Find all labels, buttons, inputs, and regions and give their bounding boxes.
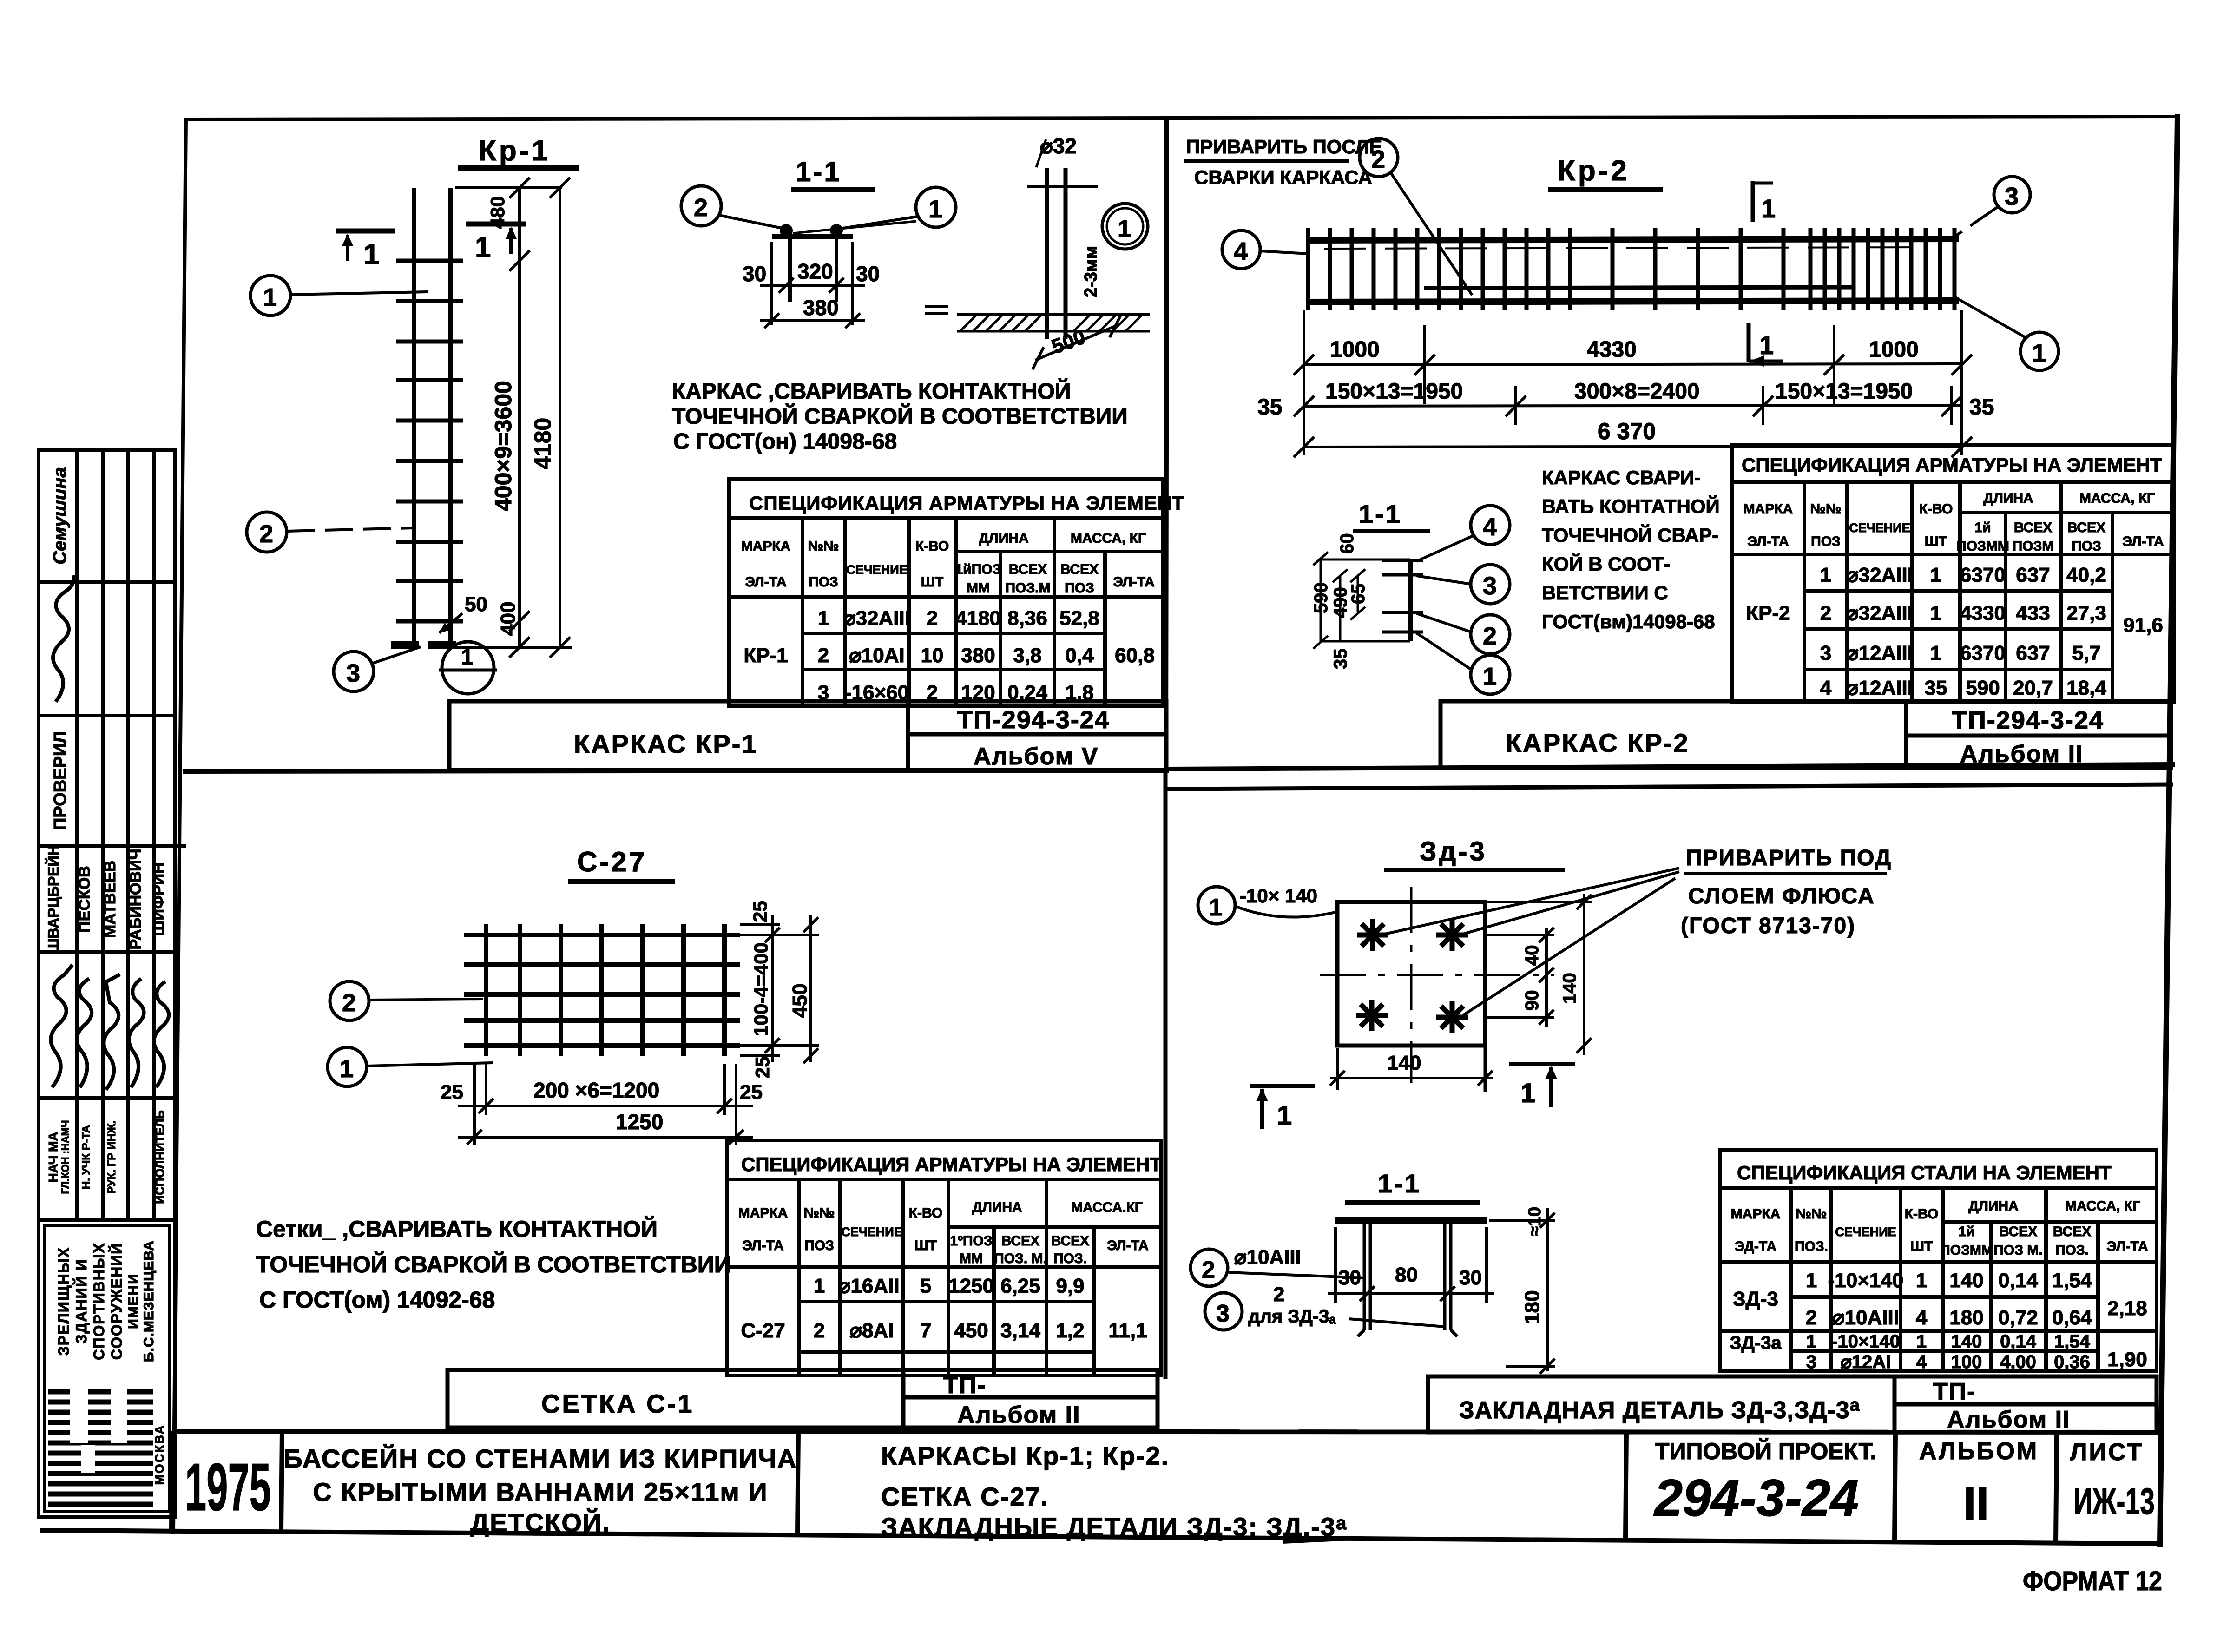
svg-text:ДЛИНА: ДЛИНА [1983,491,2033,506]
svg-text:ВЕТСТВИИ С: ВЕТСТВИИ С [1542,582,1668,604]
dim 590 [1313,552,1410,649]
callout circle 1 [916,187,956,227]
svg-text:4: 4 [1234,237,1248,265]
svg-text:№№: №№ [808,539,839,554]
project name [284,1444,797,1537]
svg-text:КАРКАСЫ Кр-1; Кр-2.: КАРКАСЫ Кр-1; Кр-2. [881,1441,1169,1470]
svg-text:1: 1 [1277,1100,1292,1131]
svg-text:2: 2 [927,607,938,630]
SECTION:BOTTOM [39,450,186,1517]
svg-text:МАССА, КГ: МАССА, КГ [2065,1198,2140,1214]
svg-text:4330: 4330 [1587,337,1637,362]
svg-text:ЭЛ-ТА: ЭЛ-ТА [742,1238,783,1253]
svg-text:ВСЕХ: ВСЕХ [1001,1233,1039,1249]
svg-text:№№: №№ [804,1205,835,1221]
callout circle 1 [250,276,290,316]
svg-text:Кр-2: Кр-2 [1558,155,1630,187]
callout circles 4 3 2 1 [1471,506,1510,545]
svg-text:ЗАКЛАДНАЯ ДЕТАЛЬ ЗД-3,ЗД-3а: ЗАКЛАДНАЯ ДЕТАЛЬ ЗД-3,ЗД-3а [1459,1395,1860,1424]
svg-text:1250: 1250 [616,1110,663,1134]
svg-text:1,2: 1,2 [1056,1319,1084,1342]
svg-text:⌀32АIII: ⌀32АIII [1846,602,1913,625]
svg-text:35: 35 [1330,649,1351,670]
svg-text:⌀12АIII: ⌀12АIII [1846,642,1913,665]
svg-text:-10×140: -10×140 [1831,1331,1900,1352]
svg-text:ПОЗ.: ПОЗ. [1053,1251,1087,1266]
svg-text:⌀32АIII: ⌀32АIII [843,607,910,630]
callout circle 3 [334,652,374,691]
svg-text:⌀32АIII: ⌀32АIII [1846,564,1913,586]
svg-text:0,14: 0,14 [2000,1331,2037,1352]
svg-text:1й: 1й [1974,520,1991,535]
svg-text:10: 10 [921,644,944,667]
svg-text:СВАРКИ КАРКАСА: СВАРКИ КАРКАСА [1194,166,1372,188]
svg-text:400×9=3600: 400×9=3600 [490,381,516,511]
svg-text:К-ВО: К-ВО [1905,1206,1939,1222]
svg-text:27,3: 27,3 [2066,602,2106,625]
svg-text:ВСЕХ: ВСЕХ [1999,1224,2037,1239]
page border left [173,119,186,1532]
page border right [2160,117,2178,1544]
svg-text:25: 25 [751,1056,773,1078]
svg-text:СЕЧЕНИЕ: СЕЧЕНИЕ [1849,521,1910,535]
callout circle 2 phi10AIII [1191,1249,1228,1286]
mesh C-27 horizontal bars poz.1 [464,935,740,1046]
svg-text:3,8: 3,8 [1013,644,1041,667]
weld star 3 [1356,1000,1388,1031]
svg-text:МАРКА: МАРКА [1731,1206,1781,1222]
svg-text:140: 140 [1387,1052,1421,1074]
callout circle 1 [2020,332,2059,370]
title bar ЗАКЛАДНАЯ ДЕТАЛЬ [1428,1376,2157,1432]
svg-text:1: 1 [1820,564,1831,586]
svg-text:ВСЕХ: ВСЕХ [1051,1233,1089,1249]
svg-text:ДЛИНА: ДЛИНА [972,1200,1022,1215]
dim 180 right [1489,1208,1555,1374]
svg-text:1: 1 [1930,602,1941,625]
svg-text:100: 100 [1951,1352,1982,1372]
svg-text:ПОЗМ: ПОЗМ [2013,539,2054,554]
svg-text:ВСЕХ: ВСЕХ [2053,1224,2091,1239]
svg-text:35: 35 [1969,395,1994,420]
svg-text:1-1: 1-1 [1359,499,1402,528]
svg-text:ВСЕХ: ВСЕХ [2014,520,2052,535]
svg-text:С ГОСТ(он) 14098-68: С ГОСТ(он) 14098-68 [673,429,897,454]
svg-text:С-27: С-27 [741,1319,785,1342]
weld star 2 [1436,919,1468,951]
bottom dim 25 200x6=1200 25 [458,1064,753,1145]
svg-text:ЗД-3а: ЗД-3а [1730,1333,1782,1353]
svg-text:0,72: 0,72 [1998,1306,2038,1329]
dim 65 [1350,569,1365,620]
svg-text:1: 1 [1806,1269,1817,1292]
svg-text:⌀12АI: ⌀12АI [1841,1352,1891,1372]
svg-text:Н. УЧК Р-ТА: Н. УЧК Р-ТА [80,1125,92,1189]
svg-text:4: 4 [1820,677,1832,699]
svg-text:ИСПОЛНИТЕЛЬ: ИСПОЛНИТЕЛЬ [153,1110,167,1204]
section mark 1 right [1509,1062,1575,1066]
svg-text:3: 3 [346,659,360,687]
svg-text:637: 637 [2016,642,2050,665]
anchor leg right poz.2 [1443,1224,1447,1330]
svg-text:2: 2 [1371,145,1385,173]
dim 500 diagonal [1035,325,1117,360]
svg-text:Альбом II: Альбом II [957,1402,1081,1428]
svg-text:НАЧ МА: НАЧ МА [46,1132,60,1182]
svg-text:ДЛИНА: ДЛИНА [1968,1198,2018,1214]
section cut mark 1 top [1751,181,1755,222]
plate ЗД-3 poz.1 [1337,902,1485,1046]
svg-text:1000: 1000 [1869,337,1919,362]
title bar КАРКАС КР-1 [449,701,1166,770]
svg-text:2: 2 [1273,1283,1284,1306]
svg-text:2: 2 [818,644,829,667]
svg-text:СЕЧЕНИЕ: СЕЧЕНИЕ [841,1225,902,1239]
svg-text:ШИФРИН: ШИФРИН [150,862,168,936]
section mark 1 left [336,229,395,234]
svg-text:590: 590 [1966,677,2000,699]
svg-text:18,4: 18,4 [2066,677,2106,699]
svg-text:3: 3 [1806,1352,1816,1372]
svg-text:2,18: 2,18 [2107,1297,2147,1320]
svg-text:1: 1 [363,238,379,270]
svg-text:СЛОЕМ ФЛЮСА: СЛОЕМ ФЛЮСА [1688,884,1875,908]
svg-text:65: 65 [1348,584,1368,605]
svg-text:ШТ: ШТ [914,1238,937,1253]
svg-text:294-3-24: 294-3-24 [1653,1469,1859,1527]
svg-text:100-4=400: 100-4=400 [750,942,772,1036]
svg-text:140: 140 [1559,973,1580,1004]
svg-text:ПРИВАРИТЬ ПОД: ПРИВАРИТЬ ПОД [1686,846,1892,870]
svg-text:590: 590 [1311,582,1331,613]
svg-text:⌀32: ⌀32 [1040,134,1077,158]
rebar cage Кр-1 vertical bar left (poz.1) [412,188,416,647]
svg-text:МАРКА: МАРКА [741,539,791,554]
svg-text:60,8: 60,8 [1115,644,1155,667]
detail top bar [772,234,853,239]
svg-text:30: 30 [743,262,766,286]
svg-text:ТОЧЕЧНОЙ СВАРКОЙ В СООТВЕТСТ: ТОЧЕЧНОЙ СВАРКОЙ В СООТВЕТСТВИИ [256,1251,731,1277]
section mark 1 right [466,222,526,227]
SECTION:DETAIL11 [449,479,1184,770]
svg-text:ШТ: ШТ [1925,534,1947,549]
svg-text:ПОЗ. М.: ПОЗ. М. [994,1251,1047,1266]
svg-text:ДЛИНА: ДЛИНА [979,531,1028,546]
svg-text:ЗАКЛАДНЫЕ ДЕТАЛИ ЗД-3; ЗД,-3а: ЗАКЛАДНЫЕ ДЕТАЛИ ЗД-3; ЗД,-3а [881,1512,1347,1541]
svg-text:Альбом II: Альбом II [1960,741,2084,768]
svg-text:ПОЗ.М: ПОЗ.М [1005,580,1050,596]
svg-text:140: 140 [1951,1331,1982,1352]
svg-text:ГОСТ(вм)14098-68: ГОСТ(вм)14098-68 [1542,611,1715,632]
svg-text:КАРКАС КР-1: КАРКАС КР-1 [574,729,758,758]
svg-text:ПОЗ: ПОЗ [809,574,838,590]
svg-text:С-27: С-27 [577,846,647,877]
dim 490 [1333,569,1348,641]
svg-text:№№: №№ [1810,501,1842,517]
plate right edge extension [1484,1046,1487,1092]
svg-text:⌀8АI: ⌀8АI [850,1319,894,1342]
callout circle 2 [330,981,369,1020]
beam Кр-2 top chord poz.1 [1306,239,1959,240]
sheet contents [881,1441,1347,1541]
dim 30 80 30 [1328,1227,1494,1303]
svg-text:МАРКА: МАРКА [1743,501,1793,517]
svg-text:450: 450 [789,984,811,1018]
svg-text:СЕЧЕНИЕ: СЕЧЕНИЕ [1835,1225,1896,1239]
svg-text:ЭЛ-ТА: ЭЛ-ТА [1113,574,1154,590]
svg-text:СПЕЦИФИКАЦИЯ АРМАТУРЫ НА ЭЛЕМЕ: СПЕЦИФИКАЦИЯ АРМАТУРЫ НА ЭЛЕМЕНТ [749,492,1184,514]
svg-text:5,7: 5,7 [2072,642,2100,665]
svg-text:СПЕЦИФИКАЦИЯ АРМАТУРЫ НА ЭЛЕМЕ: СПЕЦИФИКАЦИЯ АРМАТУРЫ НА ЭЛЕМЕНТ [741,1153,1162,1175]
svg-text:ЗДАНИЙ И: ЗДАНИЙ И [73,1259,90,1344]
svg-text:КР-2: КР-2 [1746,602,1790,625]
svg-text:1ºПОЗ: 1ºПОЗ [950,1233,992,1249]
svg-text:ШТ: ШТ [1910,1239,1933,1254]
svg-text:СПЕЦИФИКАЦИЯ СТАЛИ НА ЭЛЕМЕНТ: СПЕЦИФИКАЦИЯ СТАЛИ НА ЭЛЕМЕНТ [1737,1162,2112,1184]
page border top [186,117,2178,119]
svg-text:2-3мм: 2-3мм [1081,246,1101,297]
section detail circle 1 bottom [442,642,494,694]
svg-text:1975: 1975 [185,1449,271,1525]
svg-text:ЭЛ-ТА: ЭЛ-ТА [1107,1238,1148,1253]
svg-text:ФОРМАТ 12: ФОРМАТ 12 [2023,1566,2162,1596]
stamp signatures row [51,965,72,1087]
svg-text:ПРОВЕРИЛ: ПРОВЕРИЛ [51,731,70,830]
SECTION:S27 [1191,836,2157,1433]
svg-text:⌀16АIII: ⌀16АIII [838,1275,905,1297]
svg-text:Зд-3: Зд-3 [1420,836,1487,867]
svg-text:-10× 140: -10× 140 [1240,885,1317,907]
svg-text:7: 7 [920,1319,931,1342]
dim line outer 4180 [455,178,572,658]
svg-text:1: 1 [1759,330,1774,360]
hatching [957,315,1150,331]
detail circle 1 double [1102,204,1148,249]
svg-text:ЭЛ-ТА: ЭЛ-ТА [2106,1239,2148,1254]
section element bar [1408,559,1413,641]
svg-text:ПОЗММ: ПОЗММ [1956,539,2009,554]
plate centerline vertical [1410,887,1413,1083]
dim 140 bottom [1330,1048,1493,1090]
svg-text:ПОЗММ: ПОЗММ [1940,1243,1993,1258]
callout circle 3 [1994,177,2030,213]
svg-text:2: 2 [1820,602,1831,625]
svg-text:637: 637 [2016,564,2050,586]
svg-text:6,25: 6,25 [1000,1275,1040,1297]
svg-text:ТОЧЕЧНОЙ СВАР-: ТОЧЕЧНОЙ СВАР- [1542,524,1718,546]
dim row 2: 35 150x13 300x8 150x13 35 [1294,386,1962,425]
svg-text:8,36: 8,36 [1007,607,1047,630]
svg-text:91,6: 91,6 [2123,614,2163,637]
svg-text:КОЙ В СООТ-: КОЙ В СООТ- [1542,553,1670,575]
svg-text:для ЗД-3ₐ: для ЗД-3ₐ [1248,1306,1336,1327]
svg-text:5: 5 [920,1275,931,1297]
bottom-right quadrant inner frame top [1165,784,2171,789]
svg-text:1: 1 [1118,216,1131,243]
svg-text:4180: 4180 [955,607,1001,630]
dim 140 outer right [1485,894,1592,1055]
svg-text:1,90: 1,90 [2107,1348,2147,1371]
svg-text:11,1: 11,1 [1108,1319,1147,1342]
spec table Kr-2 [1732,445,2174,702]
svg-text:ТП-: ТП- [1933,1378,1976,1405]
title bar СЕТКА С-1 [447,1370,1158,1428]
svg-text:52,8: 52,8 [1059,607,1099,630]
svg-text:80: 80 [1395,1264,1418,1286]
stamp logo bars [48,1392,153,1504]
plate edge-on [1335,1217,1487,1224]
rungs poz.2 [396,261,463,621]
svg-text:30: 30 [856,262,880,286]
svg-text:1: 1 [1209,894,1223,921]
svg-text:Семушина: Семушина [50,467,70,564]
svg-text:1: 1 [1483,663,1497,691]
callout circle 3 dlya ЗД-3а [1205,1293,1242,1330]
SECTION:TABLE2 [256,846,1162,1428]
base line [957,313,1150,316]
svg-text:СЕТКА С-27.: СЕТКА С-27. [881,1482,1049,1511]
rebar dot right [830,224,843,237]
svg-text:КАРКАС ,СВАРИВАТЬ КОНТАКТНОЙ: КАРКАС ,СВАРИВАТЬ КОНТАКТНОЙ [672,378,1071,404]
svg-text:0,4: 0,4 [1065,644,1094,667]
svg-text:4: 4 [1916,1352,1927,1372]
svg-text:6370: 6370 [1960,564,2006,586]
svg-text:380: 380 [961,644,995,667]
dim 30 320 30 [760,242,865,325]
svg-text:⌀10АI: ⌀10АI [849,644,904,667]
svg-text:Сетки_ ,СВАРИВАТЬ КОНТАКТНОЙ: Сетки_ ,СВАРИВАТЬ КОНТАКТНОЙ [256,1216,658,1242]
section mark 1 left [1250,1084,1315,1088]
svg-text:4: 4 [1916,1306,1928,1329]
svg-text:(ГОСТ 8713-70): (ГОСТ 8713-70) [1681,914,1855,938]
quadrant divider horizontal [185,770,1166,771]
spec table Kr-1 [729,479,1163,706]
column top tick [1027,185,1098,188]
svg-text:1: 1 [1761,194,1776,223]
svg-text:3: 3 [1216,1300,1230,1327]
svg-text:40: 40 [1522,945,1542,966]
svg-text:ПОЗ М.: ПОЗ М. [1993,1243,2042,1258]
svg-text:1-1: 1-1 [796,156,842,187]
svg-text:ЭЛ-ТА: ЭЛ-ТА [2122,534,2164,549]
svg-text:⌀10АIII: ⌀10АIII [1234,1246,1301,1269]
svg-text:0,14: 0,14 [1998,1269,2038,1292]
svg-text:9,9: 9,9 [1056,1275,1084,1297]
svg-text:1-1: 1-1 [1378,1169,1421,1198]
callout circle 4 [1222,230,1260,269]
beam inner bar poz.2 [1424,287,1852,288]
svg-text:ГЛ.КОН :НАМЧ: ГЛ.КОН :НАМЧ [59,1120,71,1194]
anchor leg left poz.2 [1363,1224,1366,1330]
svg-text:С КРЫТЫМИ ВАННАМИ 25×11м И: С КРЫТЫМИ ВАННАМИ 25×11м И [313,1477,768,1507]
svg-text:МАТВЕЕВ: МАТВЕЕВ [101,861,119,938]
svg-text:К-ВО: К-ВО [915,539,949,554]
svg-text:1: 1 [1916,1331,1927,1352]
svg-text:1000: 1000 [1330,337,1380,362]
svg-text:150×13=1950: 150×13=1950 [1775,379,1913,404]
weld star 1 [1357,919,1388,951]
bottom plates poz.3 [391,641,419,649]
svg-text:0,36: 0,36 [2054,1352,2090,1372]
svg-text:ШТ: ШТ [921,574,943,590]
svg-text:1: 1 [1930,642,1941,665]
svg-text:МОСКВА: МОСКВА [152,1424,166,1485]
svg-text:30: 30 [1459,1266,1482,1289]
stirrups poz.4 [1308,228,1954,310]
svg-text:ТОЧЕЧНОЙ СВАРКОЙ В СООТВЕТСТВ: ТОЧЕЧНОЙ СВАРКОЙ В СООТВЕТСТВИИ [672,403,1128,429]
rebar cage Кр-1 vertical bar right (poz.1) [448,188,453,647]
mesh C-27 vertical bars poz.2 [486,924,724,1056]
hanger legs [788,239,792,302]
svg-text:КР-1: КР-1 [743,644,788,667]
bottom dim 1250 [458,1130,753,1145]
svg-text:1: 1 [461,645,474,670]
svg-text:1й: 1й [1958,1224,1974,1239]
svg-text:25: 25 [749,901,771,922]
svg-text:ДЕТСКОЙ.: ДЕТСКОЙ. [470,1508,610,1537]
svg-text:ТП-294-3-24: ТП-294-3-24 [1952,706,2104,734]
svg-text:60: 60 [1337,533,1357,554]
svg-text:ЭЛ-ТА: ЭЛ-ТА [745,574,786,590]
svg-text:2: 2 [1202,1257,1215,1283]
plate centerline horizontal [1320,974,1554,976]
svg-text:СПОРТИВНЫХ: СПОРТИВНЫХ [91,1242,107,1360]
svg-text:1: 1 [1520,1078,1535,1108]
svg-text:СООРУЖЕНИЙ: СООРУЖЕНИЙ [108,1243,125,1360]
svg-text:СПЕЦИФИКАЦИЯ АРМАТУРЫ НА ЭЛЕМЕ: СПЕЦИФИКАЦИЯ АРМАТУРЫ НА ЭЛЕМЕНТ [1742,454,2162,476]
section cut mark 1 lower [1747,323,1751,362]
svg-text:2: 2 [1806,1306,1817,1329]
svg-text:БАССЕЙН СО СТЕНАМИ ИЗ КИРПИЧА: БАССЕЙН СО СТЕНАМИ ИЗ КИРПИЧА [284,1444,797,1473]
svg-text:480: 480 [487,196,508,229]
svg-text:МАССА, КГ: МАССА, КГ [2079,491,2155,506]
svg-text:150×13=1950: 150×13=1950 [1325,379,1463,404]
svg-text:1: 1 [814,1275,825,1297]
svg-text:2: 2 [694,194,708,222]
svg-text:МАССА, КГ: МАССА, КГ [1071,531,1146,546]
svg-text:200 ×6=1200: 200 ×6=1200 [533,1078,659,1102]
right dim 100x4=400 and 450 [740,915,819,1063]
svg-text:ТП-: ТП- [943,1372,986,1399]
svg-text:⌀12АIII: ⌀12АIII [1846,677,1913,699]
svg-text:Альбом II: Альбом II [1947,1406,2071,1433]
weld leaders [1385,868,1679,934]
svg-text:1: 1 [928,195,942,223]
svg-text:ТП-294-3-24: ТП-294-3-24 [957,706,1110,734]
svg-text:4330: 4330 [1960,602,2006,625]
svg-text:ЗД-3: ЗД-3 [1733,1288,1778,1310]
svg-text:300×8=2400: 300×8=2400 [1574,379,1700,404]
dim 40 90 right of plate [1485,928,1554,1027]
svg-text:ММ: ММ [960,1251,983,1266]
SECTION:TABLE1 [1184,136,2059,694]
svg-text:РУК. ГР ИНЖ.: РУК. ГР ИНЖ. [105,1120,118,1194]
svg-text:ИМЕНИ: ИМЕНИ [126,1273,141,1329]
svg-text:3: 3 [2005,183,2019,211]
svg-text:КАРКАС КР-2: КАРКАС КР-2 [1506,728,1690,757]
svg-text:35: 35 [1925,677,1947,699]
dim row 1: 1000 4330 1000 [1294,310,1972,455]
svg-text:180: 180 [1521,1290,1544,1324]
svg-text:ММ: ММ [967,580,990,596]
svg-text:1: 1 [818,607,829,630]
beam bottom chord poz.3 [1306,301,1959,302]
svg-text:ВСЕХ: ВСЕХ [1060,562,1099,577]
svg-text:ЭД-ТА: ЭД-ТА [1735,1239,1776,1254]
svg-text:ВСЕХ: ВСЕХ [1009,562,1047,577]
callout circle 2 [247,512,287,552]
spec table STALI [1720,1150,2157,1371]
